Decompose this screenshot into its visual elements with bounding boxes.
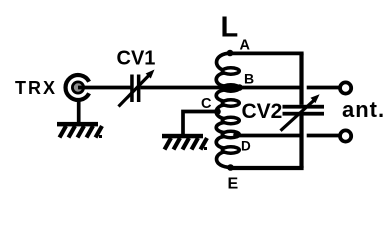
connector J1 center pin xyxy=(71,81,85,95)
antenna terminal bottom xyxy=(340,130,351,141)
svg-text:ant.: ant. xyxy=(342,97,385,122)
node A junction dot xyxy=(227,50,234,57)
wire CV1 to coil tap B xyxy=(140,86,232,90)
wire bus bottom segment xyxy=(299,116,303,169)
svg-text:CV2: CV2 xyxy=(242,100,283,123)
node D junction dot xyxy=(233,132,240,139)
ground G1 (below TRX connector) xyxy=(57,122,102,138)
capacitor CV2 plate bottom xyxy=(283,112,325,116)
capacitor CV2 variable arrow xyxy=(281,94,320,130)
capacitor CV1 plate left xyxy=(130,75,134,103)
svg-text:L: L xyxy=(221,12,239,44)
node C junction dot xyxy=(214,108,221,115)
wire tap B to bus xyxy=(239,86,300,90)
node E junction dot xyxy=(227,164,234,171)
capacitor CV1 variable arrow xyxy=(119,70,155,107)
svg-text:TRX: TRX xyxy=(15,78,57,98)
svg-text:B: B xyxy=(244,71,254,87)
svg-text:E: E xyxy=(228,176,239,193)
wire bus top segment xyxy=(299,53,303,105)
node B junction dots xyxy=(230,84,237,91)
capacitor CV2 plate top xyxy=(283,105,325,109)
ground G2 (tap C) xyxy=(162,134,207,150)
wire connector stem to ground xyxy=(77,99,81,123)
connector J1 (TRX socket) outer shield ring with gap xyxy=(66,75,90,100)
wire tap E to bus xyxy=(231,166,304,170)
wire tap D to bus xyxy=(237,134,301,138)
inductor L crossover loops xyxy=(222,68,239,153)
svg-text:C: C xyxy=(201,96,212,112)
wire bus to antenna terminal top xyxy=(307,86,339,90)
antenna terminal top xyxy=(340,82,351,93)
svg-text:D: D xyxy=(241,139,251,154)
svg-text:A: A xyxy=(240,38,251,54)
inductor L winding arcs xyxy=(216,53,230,168)
wire tap C to ground xyxy=(183,112,218,135)
wire connector to CV1 xyxy=(78,86,131,90)
wire tap A to bus xyxy=(230,52,304,56)
wire bus to antenna terminal bottom xyxy=(307,134,339,138)
capacitor CV1 plate right xyxy=(137,75,141,103)
svg-text:CV1: CV1 xyxy=(117,48,156,70)
